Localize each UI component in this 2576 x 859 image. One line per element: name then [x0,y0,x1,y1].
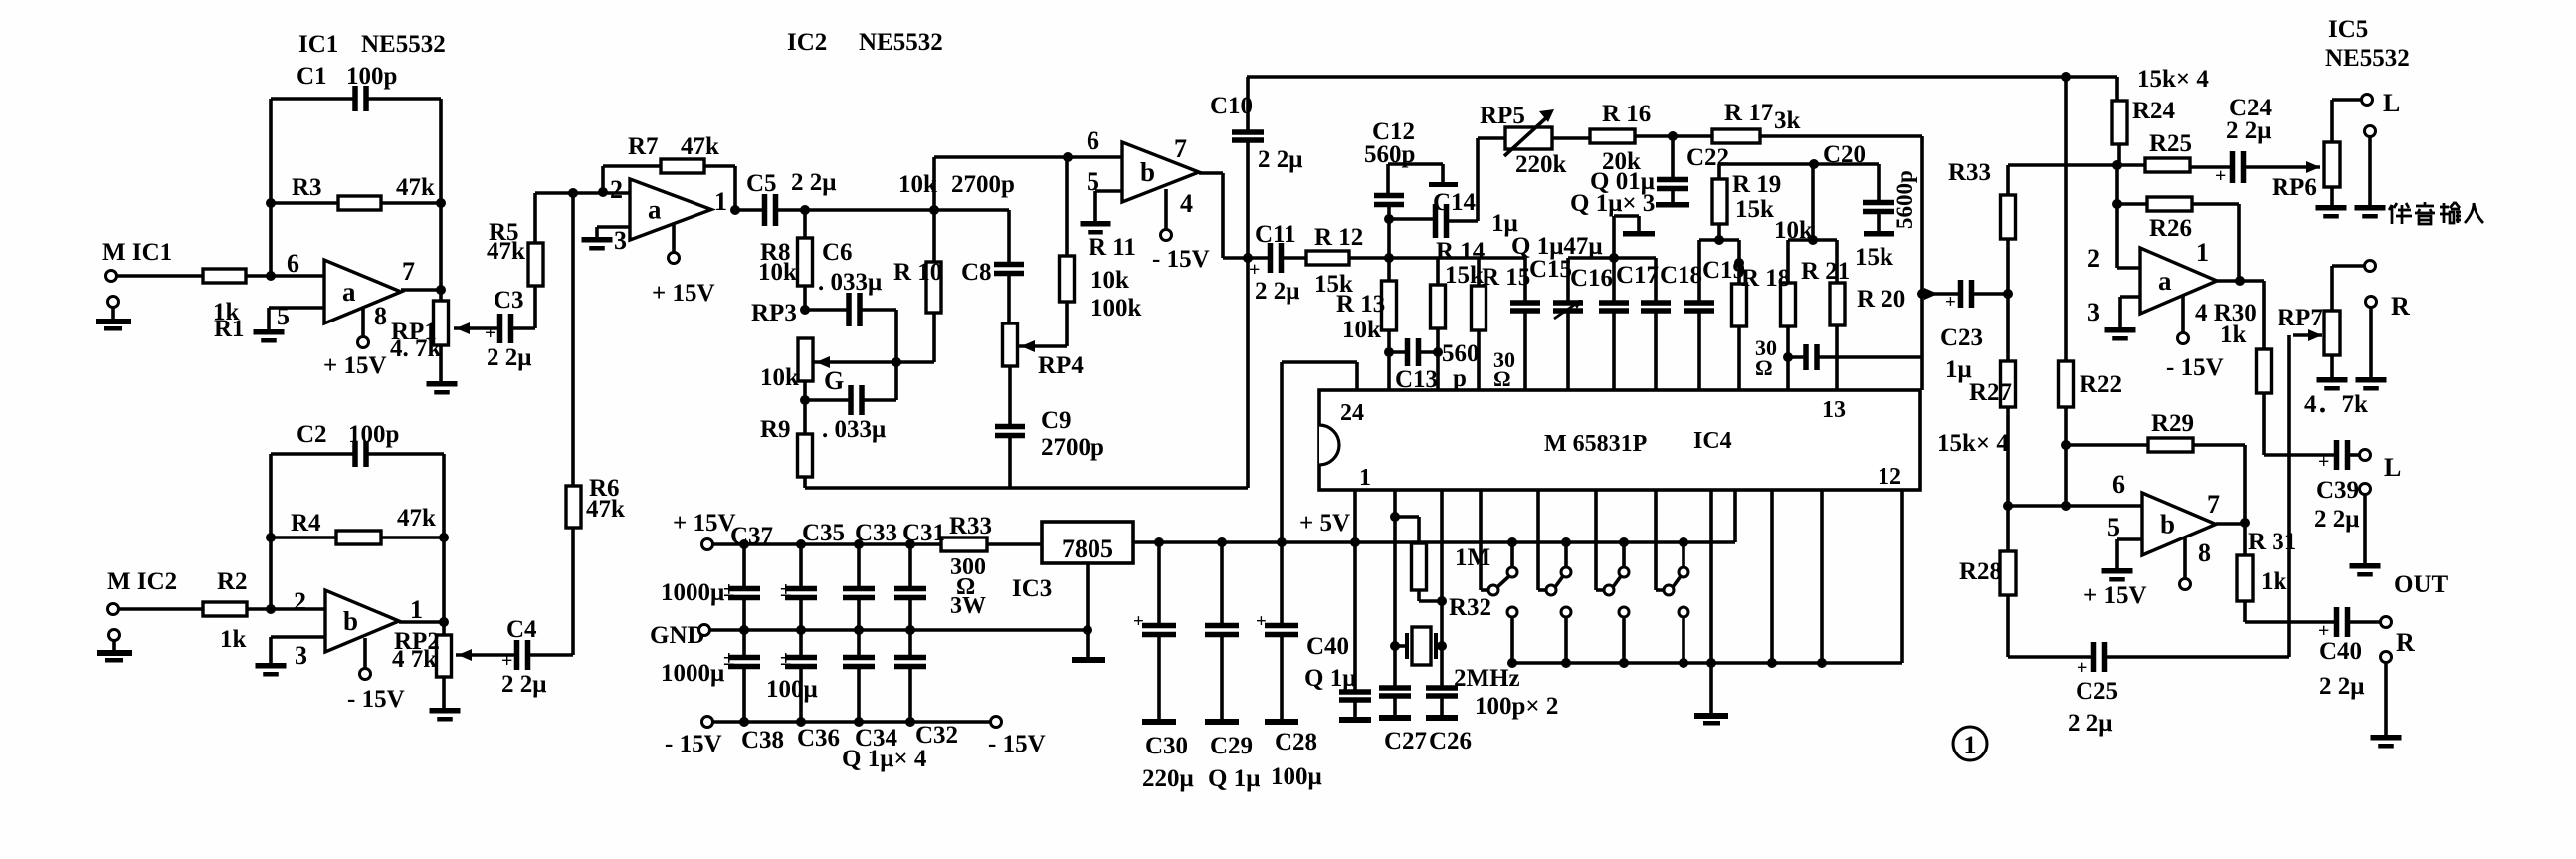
svg-text:C25: C25 [2076,678,2118,705]
svg-text:C17: C17 [1616,262,1659,289]
svg-text:7: 7 [2207,490,2220,519]
svg-text:C15: C15 [1529,256,1572,283]
svg-text:R: R [2391,292,2410,321]
svg-text:1k: 1k [2220,322,2247,348]
svg-text:7: 7 [402,257,415,286]
svg-text:2 2μ: 2 2μ [2068,710,2112,737]
svg-text:p: p [1453,365,1467,392]
svg-text:C11: C11 [1255,221,1296,248]
svg-text:1: 1 [1964,731,1977,759]
svg-text:2 2μ: 2 2μ [1255,278,1299,305]
svg-text:1k: 1k [220,626,247,653]
svg-text:M IC1: M IC1 [102,239,172,266]
svg-text:C38: C38 [741,727,784,753]
svg-text:OUT: OUT [2394,571,2449,598]
svg-text:15k: 15k [1855,244,1893,271]
svg-text:a: a [342,277,356,307]
svg-text:C16: C16 [1570,265,1613,292]
svg-text:R2: R2 [217,568,248,595]
svg-text:6: 6 [287,249,299,278]
svg-text:IC3: IC3 [1012,575,1052,602]
svg-text:±: ± [780,577,792,601]
svg-text:+ 15V: + 15V [673,510,736,537]
svg-text:220k: 220k [1515,151,1567,178]
svg-text:- 15V: - 15V [665,731,722,757]
svg-text:Q 1μ× 3: Q 1μ× 3 [1570,190,1655,217]
svg-text:+: + [485,322,495,344]
svg-text:C23: C23 [1940,324,1983,351]
svg-text:+ 15V: + 15V [2083,582,2147,609]
svg-text:2 2μ: 2 2μ [1258,146,1302,173]
svg-text:R 15: R 15 [1482,264,1530,291]
svg-text:2 2μ: 2 2μ [2226,117,2271,144]
svg-text:5600p: 5600p [1892,170,1917,229]
svg-text:Q 1μ47μ: Q 1μ47μ [1511,233,1603,260]
svg-text:13: 13 [1822,397,1846,423]
svg-text:R 19: R 19 [1732,171,1781,198]
svg-text:8: 8 [374,302,387,330]
svg-text:R1: R1 [214,316,245,342]
svg-text:+: + [1256,611,1267,632]
svg-text:2 2μ: 2 2μ [501,671,546,698]
svg-text:RP4: RP4 [1038,352,1084,379]
svg-text:R: R [2396,628,2415,657]
svg-text:R 21: R 21 [1801,258,1850,285]
svg-text:. 033μ: . 033μ [818,269,882,296]
svg-text:100k: 100k [1090,295,1142,322]
svg-text:R 18: R 18 [1741,265,1790,292]
svg-text:+: + [2215,165,2226,187]
svg-text:2MHz: 2MHz [1454,665,1520,692]
svg-text:C4: C4 [506,616,537,643]
svg-text:C36: C36 [797,725,840,752]
svg-text:NE5532: NE5532 [859,29,943,56]
svg-text:C26: C26 [1429,728,1472,754]
svg-text:R4: R4 [291,510,321,537]
svg-text:R 16: R 16 [1602,101,1651,127]
svg-text:2 2μ: 2 2μ [791,169,836,196]
svg-text:±: ± [723,646,735,670]
svg-text:IC4: IC4 [1693,428,1732,454]
svg-text:560: 560 [1442,340,1480,367]
svg-text:1000μ: 1000μ [661,579,724,606]
svg-text:15k× 4: 15k× 4 [1937,430,2009,457]
svg-text:C28: C28 [1275,729,1317,755]
svg-text:R32: R32 [1449,594,1491,621]
svg-text:C37: C37 [730,523,773,549]
svg-text:C35: C35 [802,520,845,546]
svg-text:RP7: RP7 [2278,305,2323,331]
svg-text:b: b [2160,510,2175,539]
svg-text:15k× 4: 15k× 4 [2137,66,2209,93]
svg-text:IC2: IC2 [787,29,827,56]
svg-text:R9: R9 [760,416,791,443]
svg-text:100p× 2: 100p× 2 [1475,693,1558,720]
svg-text:±: ± [723,577,735,601]
svg-text:10k: 10k [1342,317,1381,343]
svg-text:24: 24 [1340,400,1364,426]
svg-text:Ω: Ω [1755,355,1773,380]
svg-text:C30: C30 [1145,733,1188,759]
svg-text:L: L [2383,89,2400,117]
svg-text:4．7k: 4．7k [2304,391,2368,418]
svg-text:R 12: R 12 [1314,224,1363,251]
svg-text:R7: R7 [628,133,659,160]
svg-text:12: 12 [1878,464,1901,490]
svg-text:1M: 1M [1455,544,1490,571]
svg-text:3: 3 [2087,298,2100,326]
svg-text:C8: C8 [961,259,992,286]
svg-text:R 17: R 17 [1724,100,1773,126]
svg-text:C18: C18 [1660,262,1702,289]
svg-text:6: 6 [1087,126,1099,155]
svg-text:G: G [824,366,844,395]
svg-text:5: 5 [2107,513,2120,541]
svg-text:1: 1 [410,595,423,624]
svg-text:1μ: 1μ [1945,356,1972,383]
svg-text:R3: R3 [292,174,322,201]
svg-text:M 65831P: M 65831P [1544,431,1647,457]
svg-text:RP6: RP6 [2272,174,2317,201]
svg-text:IC5: IC5 [2328,16,2368,43]
svg-text:C5: C5 [746,170,777,197]
svg-text:3W: 3W [950,593,986,619]
svg-text:C6: C6 [822,239,853,266]
svg-text:+: + [501,650,512,672]
svg-text:b: b [343,606,358,636]
svg-text:3: 3 [295,641,307,670]
svg-text:4. 7k: 4. 7k [390,335,442,362]
svg-text:NE5532: NE5532 [361,31,446,58]
svg-text:R29: R29 [2151,410,2194,437]
svg-text:2: 2 [294,587,306,616]
svg-text:+ 15V: + 15V [323,352,387,379]
svg-text:C32: C32 [915,722,958,749]
svg-text:C39: C39 [2316,477,2359,504]
svg-text:R 20: R 20 [1857,286,1905,313]
svg-text:- 15V: - 15V [2166,354,2224,381]
svg-text:±: ± [780,646,792,670]
svg-text:1: 1 [1359,465,1371,491]
svg-text:+: + [1133,611,1144,632]
svg-text:100p: 100p [346,63,397,90]
svg-text:- 15V: - 15V [347,686,405,713]
svg-text:3k: 3k [1774,107,1801,134]
svg-text:7805: 7805 [1062,535,1113,563]
svg-text:b: b [1140,157,1155,187]
svg-text:C22: C22 [1686,144,1729,171]
svg-text:+: + [1945,292,1956,313]
svg-text:R26: R26 [2149,215,2192,242]
svg-text:10k: 10k [758,259,797,286]
svg-text:560p: 560p [1364,141,1415,168]
svg-text:a: a [2158,266,2172,296]
svg-text:47k: 47k [586,496,625,523]
svg-text:47k: 47k [487,238,525,265]
svg-text:15k: 15k [1735,196,1774,223]
svg-text:47k: 47k [681,133,719,160]
svg-text:L: L [2384,453,2401,482]
svg-text:1000μ: 1000μ [661,660,724,687]
svg-text:R33: R33 [1948,159,1991,186]
svg-text:4 7k: 4 7k [392,646,437,673]
svg-text:8: 8 [2198,538,2211,567]
svg-text:- 15V: - 15V [1152,246,1210,273]
svg-text:C20: C20 [1823,141,1866,168]
svg-text:7: 7 [1174,134,1187,163]
svg-text:10k: 10k [1774,217,1813,244]
svg-text:GND: GND [650,622,705,649]
svg-text:R24: R24 [2132,98,2176,124]
svg-text:2 2μ: 2 2μ [2319,673,2364,700]
svg-text:C2: C2 [297,421,327,448]
svg-text:+: + [2077,657,2087,679]
svg-text:47k: 47k [397,505,436,532]
svg-text:Q 1μ× 4: Q 1μ× 4 [842,746,927,772]
svg-text:2700p: 2700p [951,171,1015,198]
svg-text:10k: 10k [898,171,937,198]
svg-text:+: + [2318,451,2329,473]
svg-text:. 033μ: . 033μ [822,416,886,443]
svg-text:R 13: R 13 [1336,291,1385,318]
svg-text:3: 3 [614,226,627,255]
svg-text:2 2μ: 2 2μ [2314,506,2359,533]
svg-text:R 11: R 11 [1089,234,1136,261]
svg-text:2700p: 2700p [1041,434,1104,461]
svg-text:M IC2: M IC2 [107,568,177,595]
svg-text:R22: R22 [2080,371,2122,398]
svg-text:C19: C19 [1702,257,1745,284]
svg-text:1k: 1k [2261,568,2287,595]
svg-text:C29: C29 [1210,733,1253,759]
svg-text:RP3: RP3 [751,300,797,326]
svg-text:R27: R27 [1969,379,2012,406]
svg-text:2 2μ: 2 2μ [487,344,531,371]
svg-text:10k: 10k [760,364,799,391]
svg-text:+ 15V: + 15V [652,280,715,307]
svg-text:100μ: 100μ [766,676,818,703]
svg-text:R28: R28 [1959,558,2002,585]
svg-text:2: 2 [2087,244,2100,273]
svg-text:Ω: Ω [1493,366,1511,391]
svg-text:1: 1 [2196,238,2209,267]
svg-text:6: 6 [2112,470,2125,499]
svg-text:C40: C40 [1306,633,1349,660]
svg-text:4: 4 [1180,189,1193,218]
svg-text:C1: C1 [297,63,327,90]
svg-text:100μ: 100μ [1271,763,1322,790]
svg-text:C10: C10 [1210,93,1253,119]
svg-text:- 15V: - 15V [988,731,1046,757]
svg-text:RP5: RP5 [1480,103,1525,129]
svg-text:2: 2 [610,175,623,204]
svg-text:a: a [648,195,662,225]
svg-text:+ 5V: + 5V [1299,510,1350,537]
svg-text:C27: C27 [1384,728,1427,754]
svg-text:R 31: R 31 [2248,529,2296,555]
svg-text:10k: 10k [1090,267,1129,294]
svg-text:Q 1μ: Q 1μ [1208,765,1260,792]
svg-text:220μ: 220μ [1142,765,1194,792]
svg-text:R25: R25 [2149,130,2192,157]
svg-text:1: 1 [714,187,727,216]
svg-text:R33: R33 [949,513,992,539]
svg-text:C14: C14 [1433,189,1477,216]
svg-text:C3: C3 [494,287,524,314]
svg-text:47k: 47k [396,174,435,201]
svg-text:C40: C40 [2319,638,2362,665]
svg-text:R 10: R 10 [893,259,942,286]
svg-text:C9: C9 [1041,407,1072,434]
svg-text:IC1: IC1 [298,31,338,58]
svg-text:NE5532: NE5532 [2325,45,2410,72]
svg-text:Q 1μ: Q 1μ [1304,665,1356,692]
